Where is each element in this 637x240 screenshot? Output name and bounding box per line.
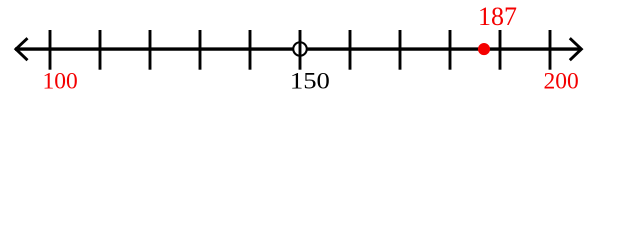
left arrowhead (16, 38, 28, 60)
number line main axis wire (15, 47, 581, 50)
tick 200 (549, 30, 552, 70)
tick 100 (49, 30, 52, 70)
svg-text:200: 200 (543, 68, 578, 94)
tick 160 (349, 30, 352, 70)
svg-text:100: 100 (42, 68, 77, 94)
svg-text:187: 187 (478, 2, 517, 31)
tick 190 (499, 30, 502, 70)
tick 140 (249, 30, 252, 70)
red point at 187 (478, 43, 490, 55)
tick 110 (99, 30, 102, 70)
tick 150 (299, 30, 302, 70)
tick 170 (399, 30, 402, 70)
tick 120 (149, 30, 152, 70)
tick 180 (449, 30, 452, 70)
svg-text:150: 150 (290, 68, 330, 94)
right arrowhead (570, 38, 582, 60)
tick 130 (199, 30, 202, 70)
open circle at 150 (293, 42, 307, 56)
